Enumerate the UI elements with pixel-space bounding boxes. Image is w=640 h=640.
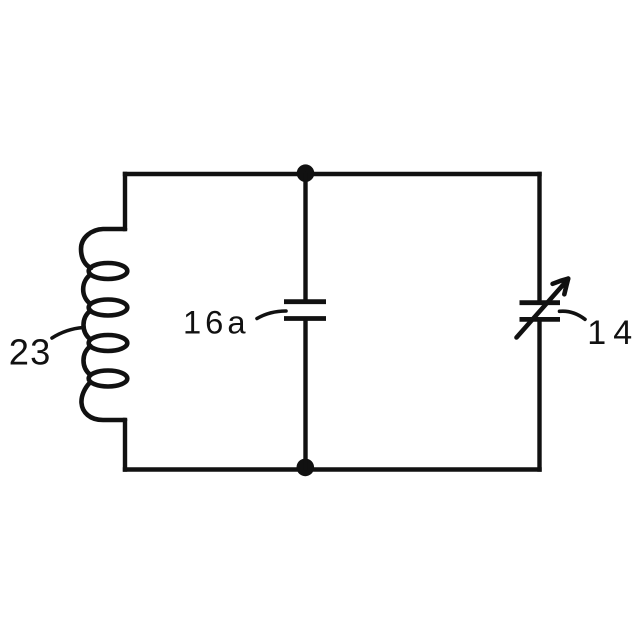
capacitor 16a plates (284, 302, 326, 319)
wire right upper (537, 174, 541, 301)
node top junction (297, 164, 315, 182)
wire right lower (537, 322, 541, 470)
svg-text:14: 14 (587, 314, 639, 352)
wire bottom (125, 467, 540, 471)
variable capacitor 14 arrow shaft (517, 281, 567, 338)
wire left lower (123, 420, 127, 470)
wire middle lower (303, 321, 307, 469)
leader from 16a to capacitor (257, 311, 286, 319)
wire middle upper (303, 174, 307, 300)
label 16a (183, 304, 250, 341)
label 14 (587, 314, 639, 352)
leader from 14 to variable capacitor (560, 311, 586, 319)
variable capacitor 14 plates (520, 303, 561, 320)
leader from 23 to inductor (52, 328, 83, 339)
variable capacitor 14 arrowhead (553, 279, 569, 295)
inductor 23 (81, 229, 127, 420)
svg-text:23: 23 (9, 332, 52, 373)
svg-text:16a: 16a (183, 304, 250, 341)
wire left upper (123, 174, 127, 229)
node bottom junction (297, 459, 315, 477)
label 23 (9, 332, 52, 373)
wire top (125, 172, 540, 176)
